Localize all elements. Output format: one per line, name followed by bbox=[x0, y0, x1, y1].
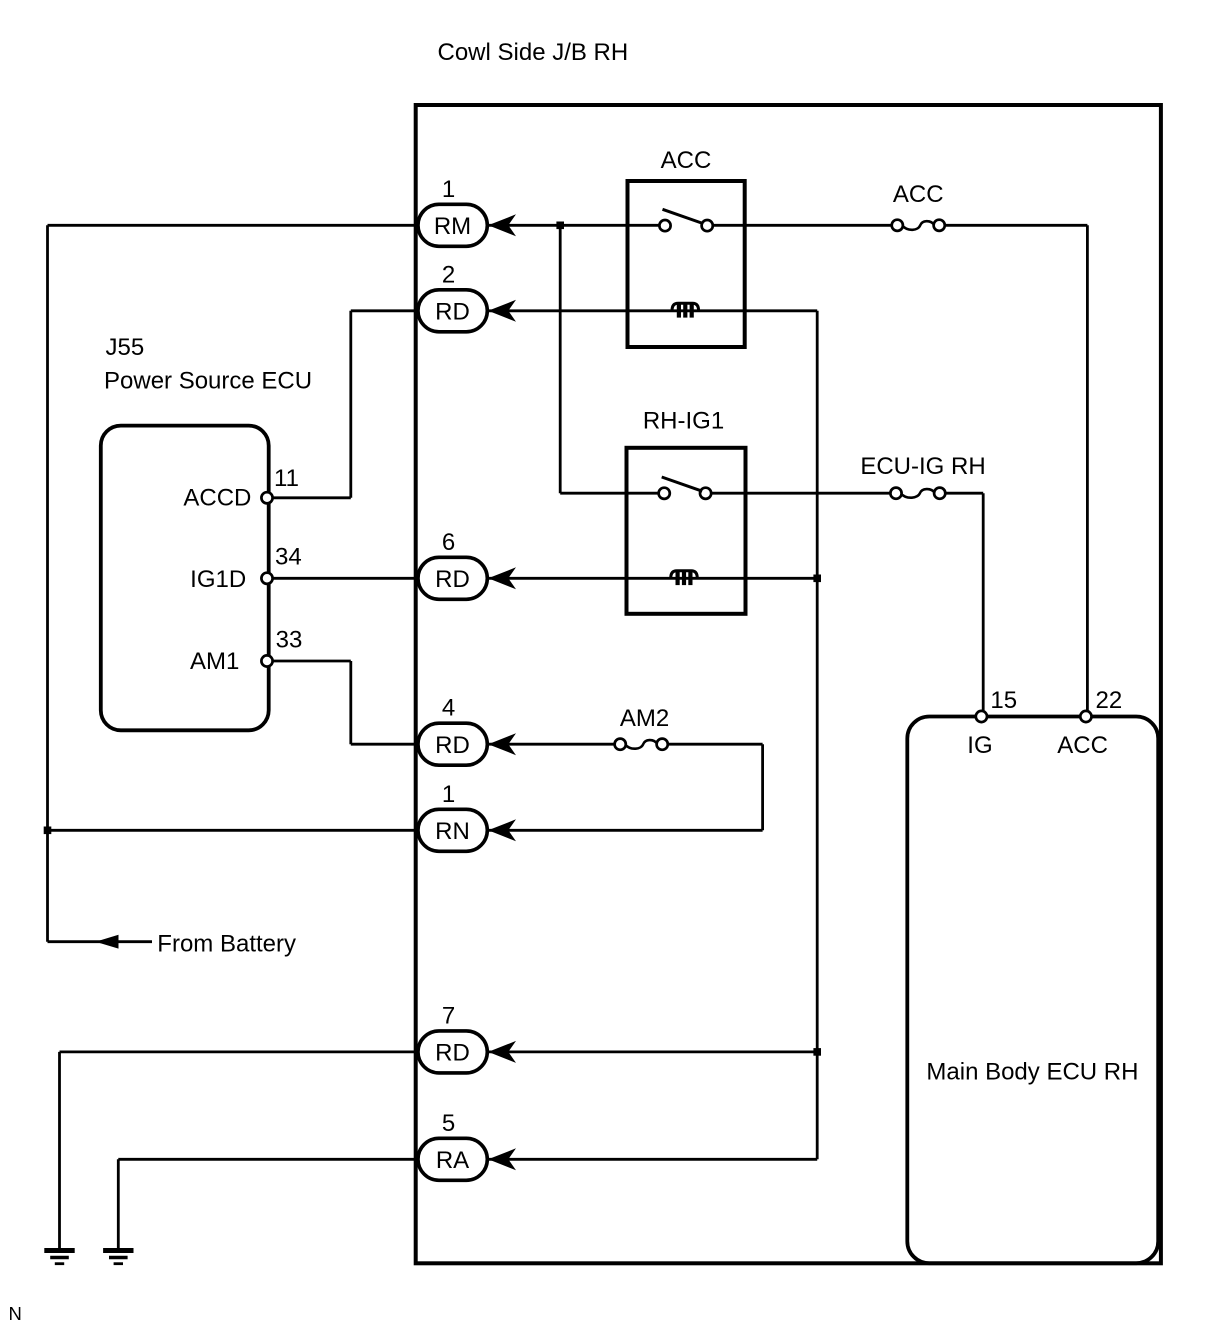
wire RD2 row through ACC relay coil bbox=[351, 309, 817, 312]
pin 11 circle bbox=[261, 492, 272, 503]
svg-text:RD: RD bbox=[435, 732, 470, 759]
arrow into pin RD bbox=[488, 567, 516, 589]
connector pin 1 (RN) bbox=[418, 809, 487, 851]
fuse ACC bbox=[897, 220, 939, 230]
wire AM1 pin 33 horizontal bbox=[267, 660, 351, 663]
wire vertical RD7 to ground bbox=[58, 1052, 61, 1250]
wire RA row bbox=[118, 1158, 817, 1161]
wire vertical to Main Body ECU pin 22 bbox=[1086, 225, 1089, 716]
svg-text:1: 1 bbox=[442, 176, 455, 203]
connector pin 2 (RD) bbox=[418, 290, 487, 332]
pin 34 circle bbox=[261, 573, 272, 584]
Main Body ECU RH box bbox=[907, 717, 1158, 1264]
pin 15 circle bbox=[976, 711, 987, 722]
connector pin 4 (RD) bbox=[418, 723, 487, 765]
svg-text:J55: J55 bbox=[106, 334, 145, 361]
wire RH-IG1 output through ECU-IG RH fuse bbox=[706, 492, 983, 495]
arrow into pin RN bbox=[488, 819, 516, 841]
junction dot left vertical / RN row bbox=[44, 827, 52, 835]
svg-text:IG1D: IG1D bbox=[190, 566, 246, 593]
wire into RH-IG1 switch contact bbox=[560, 492, 662, 495]
wire ACC relay output to ACC fuse to vertical bbox=[707, 224, 1087, 227]
wire left vertical battery feed bbox=[46, 225, 49, 941]
svg-text:Power Source ECU: Power Source ECU bbox=[104, 368, 312, 395]
svg-text:6: 6 bbox=[442, 529, 455, 556]
svg-text:Main Body ECU RH: Main Body ECU RH bbox=[926, 1059, 1138, 1086]
junction dot RM row / RH-IG1 branch bbox=[556, 222, 564, 230]
arrow into pin RM bbox=[488, 214, 516, 236]
relay RH-IG1 switch lever bbox=[662, 477, 703, 491]
wire vertical ACC coil to RA row bbox=[816, 311, 819, 1160]
relay RH-IG1 coil bbox=[671, 571, 698, 579]
svg-text:From Battery: From Battery bbox=[157, 931, 296, 958]
svg-text:RD: RD bbox=[435, 299, 470, 326]
wire vertical RA to ground bbox=[117, 1159, 120, 1250]
connector pin 1 (RM) bbox=[418, 204, 487, 246]
junction dot RH-IG1 coil / vertical bbox=[813, 575, 821, 583]
svg-text:AM1: AM1 bbox=[190, 648, 239, 675]
connector pin 6 (RD) bbox=[418, 557, 487, 599]
svg-text:2: 2 bbox=[442, 261, 455, 288]
svg-text:N: N bbox=[9, 1303, 22, 1324]
svg-text:RD: RD bbox=[435, 1040, 470, 1067]
svg-text:4: 4 bbox=[442, 695, 455, 722]
svg-text:IG: IG bbox=[967, 732, 992, 759]
svg-text:22: 22 bbox=[1096, 687, 1123, 714]
svg-text:ACC: ACC bbox=[893, 181, 944, 208]
svg-text:15: 15 bbox=[990, 687, 1017, 714]
svg-text:ACCD: ACCD bbox=[183, 485, 251, 512]
wire RD4 row through AM2 fuse bbox=[351, 743, 763, 746]
wire RN row bbox=[48, 829, 763, 832]
relay ACC switch contacts bbox=[659, 220, 712, 231]
svg-text:ACC: ACC bbox=[661, 147, 712, 174]
wire From Battery stub bbox=[48, 940, 153, 943]
wire ACCD pin 11 horizontal bbox=[267, 496, 351, 499]
svg-text:7: 7 bbox=[442, 1002, 455, 1029]
wire vertical RM row to RH-IG1 contact bbox=[559, 225, 562, 493]
relay ACC box bbox=[628, 181, 745, 347]
svg-text:ACC: ACC bbox=[1057, 732, 1108, 759]
fuse ECU-IG RH bbox=[896, 488, 940, 498]
wire vertical AM2 to RN row bbox=[761, 744, 764, 830]
connector pin 7 (RD) bbox=[418, 1031, 487, 1073]
svg-text:RA: RA bbox=[436, 1147, 469, 1174]
svg-text:33: 33 bbox=[276, 626, 303, 653]
wire RD7 row bbox=[60, 1051, 818, 1054]
ground at RA wire bbox=[103, 1248, 133, 1253]
arrow into pin RD bbox=[488, 733, 516, 755]
relay ACC coil bbox=[672, 303, 699, 311]
svg-text:AM2: AM2 bbox=[620, 705, 669, 732]
wire vertical RD2 to ACCD bbox=[349, 311, 352, 498]
relay ACC switch lever bbox=[663, 209, 704, 223]
junction block Cowl Side J/B RH box bbox=[416, 105, 1161, 1263]
svg-text:Cowl Side J/B RH: Cowl Side J/B RH bbox=[438, 39, 629, 66]
svg-text:RD: RD bbox=[435, 566, 470, 593]
fuse AM2 bbox=[620, 739, 662, 749]
wire vertical to Main Body ECU pin 15 bbox=[982, 493, 985, 716]
wire IG1D pin 34 row through RD6 to RH-IG1 coil bbox=[267, 577, 817, 580]
pin 33 circle bbox=[261, 655, 272, 666]
svg-text:RM: RM bbox=[434, 213, 471, 240]
arrow into pin RA bbox=[488, 1148, 516, 1170]
wire RM row to ACC relay contact bbox=[48, 224, 664, 227]
junction dot RD7 row / vertical bbox=[813, 1048, 821, 1056]
arrow into pin RD bbox=[488, 1041, 516, 1063]
svg-text:1: 1 bbox=[442, 781, 455, 808]
svg-text:34: 34 bbox=[275, 544, 302, 571]
relay RH-IG1 box bbox=[627, 448, 746, 614]
svg-text:11: 11 bbox=[274, 465, 299, 492]
ground at RD7 wire bbox=[44, 1248, 74, 1253]
pin 22 circle bbox=[1080, 711, 1091, 722]
svg-text:ECU-IG RH: ECU-IG RH bbox=[860, 453, 985, 480]
svg-text:RN: RN bbox=[435, 818, 470, 845]
wire vertical AM1 to RD4 row bbox=[349, 661, 352, 744]
connector pin 5 (RA) bbox=[418, 1138, 487, 1180]
relay RH-IG1 switch contacts bbox=[658, 488, 711, 499]
arrow into pin RD bbox=[488, 300, 516, 322]
From Battery arrow bbox=[96, 935, 119, 949]
svg-text:RH-IG1: RH-IG1 bbox=[643, 408, 724, 435]
svg-text:5: 5 bbox=[442, 1110, 455, 1137]
J55 Power Source ECU box bbox=[101, 426, 269, 731]
